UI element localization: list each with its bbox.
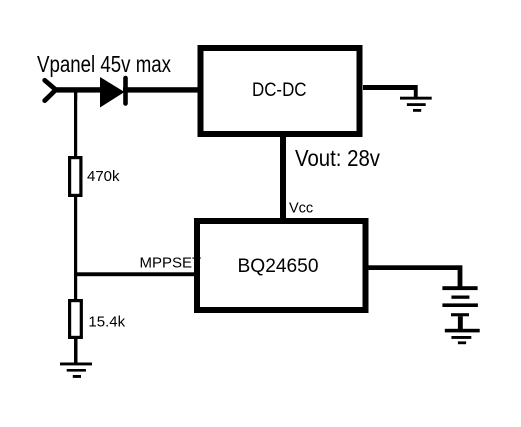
- diode D1: [100, 77, 126, 108]
- wire R2 to ground: [74, 336, 78, 363]
- wire Vcc DC-DC to BQ24650: [280, 137, 286, 218]
- wire BQ24650 to battery: [365, 265, 462, 286]
- ground GND1 (top right): [400, 97, 432, 112]
- battery BT1: [442, 286, 478, 330]
- svg-text:15.4k: 15.4k: [88, 314, 125, 331]
- ground GND2 (bottom left): [60, 363, 92, 378]
- svg-text:DC-DC: DC-DC: [252, 80, 307, 101]
- svg-text:Vpanel 45v max: Vpanel 45v max: [37, 51, 171, 77]
- svg-text:BQ24650: BQ24650: [238, 255, 319, 277]
- resistor R1 470k: [70, 158, 120, 196]
- wire R1 to R2: [74, 196, 77, 300]
- DC-DC converter U1: [201, 48, 360, 134]
- charge controller U2 BQ24650: [197, 221, 366, 310]
- resistor R2 15.4k: [70, 301, 126, 338]
- svg-text:470k: 470k: [87, 168, 120, 185]
- wire input to diode: [54, 87, 101, 92]
- svg-text:Vcc: Vcc: [289, 201, 313, 217]
- ground GND3 (below battery): [445, 329, 480, 344]
- svg-text:Vout: 28v: Vout: 28v: [295, 145, 380, 171]
- input connector J1 (chevron): [45, 80, 56, 100]
- wire diode to DC-DC: [123, 87, 199, 92]
- wire DC-DC to ground: [363, 85, 418, 98]
- node junction at divider tap: [74, 89, 77, 100]
- wire vertical input to R1: [74, 92, 77, 157]
- svg-text:MPPSET: MPPSET: [140, 255, 202, 272]
- wire MPPSET to divider tap: [74, 272, 197, 276]
